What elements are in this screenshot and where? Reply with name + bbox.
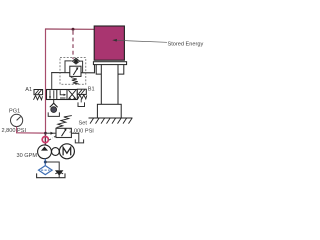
strainer filter diamond [39, 166, 53, 175]
wire dark segment junction to pump [44, 133, 46, 146]
relief valve inlet arrow [47, 132, 56, 134]
svg-text:Set: Set [79, 121, 88, 127]
envelope 3 crossed arrows [69, 90, 76, 99]
node junction pump outlet / gauge [44, 132, 47, 135]
tank symbol relief drain [75, 139, 83, 143]
relief valve RV1 body [56, 128, 71, 137]
wire relief outlet to tank [71, 133, 78, 142]
svg-text:PG1: PG1 [9, 109, 20, 115]
solenoid A1 box [34, 90, 43, 95]
cylinder head with ears [96, 65, 124, 75]
check valve with ball [72, 58, 79, 64]
svg-text:2,000 PSI: 2,000 PSI [69, 128, 94, 134]
spring left [34, 96, 43, 100]
envelope 2 elbow arrow [60, 90, 65, 95]
tank symbol reservoir [37, 173, 65, 177]
solenoid B1 box [77, 89, 86, 94]
electric motor M [59, 144, 74, 159]
wire blue suction line [44, 159, 46, 167]
tank symbol right drain [78, 102, 85, 106]
gauge PG1 [11, 114, 23, 126]
svg-text:2,800 PSI: 2,800 PSI [2, 128, 27, 134]
wire counterbalance main line [51, 72, 94, 74]
directional valve DV1 body [47, 90, 78, 100]
wire valve A-port up to counterbalance [51, 73, 53, 90]
check valve return to tank [56, 171, 63, 176]
svg-text:A1: A1 [25, 87, 32, 93]
check valve bypass loop [65, 61, 72, 73]
counterbalance spring [71, 78, 79, 85]
wire return branch to check [45, 162, 59, 170]
wire red pressure vertical from pump to top [45, 29, 47, 146]
wire red dashed pilot line down to counterbalance check [72, 31, 74, 59]
cylinder barrel / plunger [100, 65, 102, 105]
tank symbol valve drain [48, 112, 59, 116]
relief valve spring [57, 116, 72, 128]
cylinder base block [97, 104, 121, 118]
cylinder platen plate [93, 62, 126, 65]
component red test point ring [42, 137, 48, 143]
leader line stored energy [114, 40, 168, 42]
envelope 1 arrows [49, 90, 51, 98]
node blue junction [44, 161, 47, 164]
svg-text:Stored Energy: Stored Energy [168, 41, 204, 47]
wire riser to cylinder port [94, 63, 96, 73]
counterbalance enclosure dashed box [60, 58, 86, 85]
svg-text:B1: B1 [88, 86, 95, 92]
coupling circle [52, 148, 60, 156]
ground line [89, 117, 133, 119]
wire drain stub right solenoid [80, 99, 82, 102]
wire gauge stem red [16, 127, 18, 133]
check valve to tank below directional valve [53, 100, 55, 104]
wire red pressure horizontal top run to cylinder weight [45, 28, 94, 30]
node pilot tap junction [72, 28, 75, 31]
counterbalance valve element [70, 66, 81, 76]
pump P1 [38, 145, 52, 159]
ground hatching [90, 118, 132, 123]
wire red gauge horizontal line [16, 132, 46, 134]
spring right [78, 95, 87, 99]
svg-text:30 GPM: 30 GPM [17, 153, 38, 159]
relief valve pilot dashes [49, 136, 57, 140]
weight block stored energy [94, 26, 124, 60]
